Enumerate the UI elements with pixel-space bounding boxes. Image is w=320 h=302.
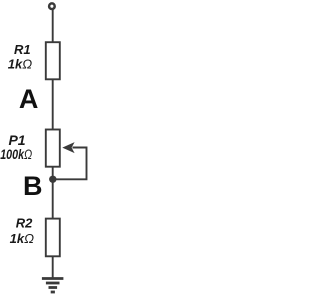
svg-text:B: B xyxy=(23,171,43,201)
ground xyxy=(42,279,64,293)
resistor R2 xyxy=(46,219,60,257)
wire xyxy=(52,79,54,129)
wire xyxy=(52,256,54,278)
svg-text:A: A xyxy=(19,84,39,114)
junction node B dot xyxy=(49,176,56,183)
svg-text:R1: R1 xyxy=(14,42,31,57)
wiper wire xyxy=(53,148,87,180)
wire xyxy=(52,9,54,42)
terminal (input) xyxy=(49,3,55,9)
wiper arrow of P1 xyxy=(62,142,74,153)
svg-text:1kΩ: 1kΩ xyxy=(10,231,34,246)
wire xyxy=(52,167,54,219)
svg-text:1kΩ: 1kΩ xyxy=(8,56,32,71)
resistor R1 xyxy=(46,42,60,79)
svg-text:R2: R2 xyxy=(16,215,33,230)
svg-text:100kΩ: 100kΩ xyxy=(0,146,32,162)
potentiometer P1 body xyxy=(46,130,60,167)
